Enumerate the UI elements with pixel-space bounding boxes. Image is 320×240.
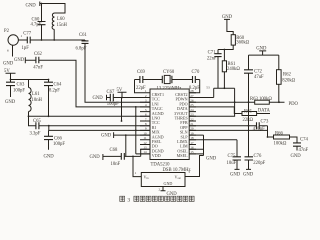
crystal CY60 xyxy=(157,70,182,91)
wire C68 to DGND pin 13 xyxy=(125,149,150,156)
connector P2 xyxy=(4,29,27,57)
svg-text:8.2pF: 8.2pF xyxy=(49,89,60,94)
wire 5V drop to TCC row xyxy=(121,98,123,122)
svg-text:9: 9 xyxy=(145,127,147,131)
svg-text:11: 11 xyxy=(143,136,147,140)
svg-text:5: 5 xyxy=(145,108,147,112)
resistor R61 xyxy=(222,61,240,72)
wire R61 bottom to THRES pin 23 xyxy=(189,72,235,117)
svg-text:820kΩ: 820kΩ xyxy=(282,79,295,84)
resistor R62 xyxy=(277,55,296,102)
capacitor C75 xyxy=(189,140,241,170)
svg-text:VDD: VDD xyxy=(152,153,161,158)
svg-text:C68: C68 xyxy=(110,148,118,153)
svg-text:10uF: 10uF xyxy=(227,161,237,166)
wire crystal left leg to CRST1 xyxy=(135,80,141,93)
svg-text:GND: GND xyxy=(243,173,254,178)
svg-text:GND: GND xyxy=(291,154,302,159)
svg-text:L60: L60 xyxy=(57,17,65,22)
svg-text:15nH: 15nH xyxy=(57,23,68,28)
power 5V at pin2 xyxy=(117,88,127,98)
transistor U2 voltage regulator box xyxy=(141,173,185,187)
resistor R60 xyxy=(231,35,249,46)
svg-text:8.2pF: 8.2pF xyxy=(189,86,200,91)
svg-text:14: 14 xyxy=(143,150,147,154)
capacitor C68 xyxy=(110,148,125,167)
svg-text:100pF: 100pF xyxy=(107,102,119,107)
node C64 bottom xyxy=(48,115,50,117)
power 5V rail left xyxy=(4,69,16,80)
svg-text:C69: C69 xyxy=(137,70,145,75)
op-amp U1 TDA5210 IC body xyxy=(150,89,189,160)
svg-text:22nF: 22nF xyxy=(207,57,217,62)
ground label for C62 xyxy=(14,57,36,63)
svg-text:GND: GND xyxy=(164,181,173,186)
wire drop to C65 xyxy=(29,116,36,125)
wire R60 to divider node xyxy=(218,45,233,61)
wire crystal right leg to CRST2 xyxy=(189,80,200,93)
svg-text:R66: R66 xyxy=(275,132,283,137)
svg-text:3: 3 xyxy=(188,170,190,174)
svg-text:100pF: 100pF xyxy=(53,142,65,147)
node 5V C63 xyxy=(10,79,12,81)
capacitor C71 xyxy=(207,50,222,89)
svg-text:TDA5210: TDA5210 xyxy=(151,163,171,168)
svg-text:240kΩ: 240kΩ xyxy=(227,67,240,72)
svg-text:GND: GND xyxy=(5,100,16,105)
ground label for C67 xyxy=(93,95,111,102)
svg-text:P2: P2 xyxy=(4,29,10,34)
capacitor C60 xyxy=(31,4,46,41)
ground GND top-left label xyxy=(26,2,40,9)
wire C to MIX pin 9 xyxy=(49,129,150,131)
svg-text:47nF: 47nF xyxy=(33,66,43,71)
svg-text:24: 24 xyxy=(190,108,194,112)
svg-text:47nF: 47nF xyxy=(299,148,309,153)
svg-text:DATA: DATA xyxy=(258,108,271,113)
capacitor C76 xyxy=(245,154,266,169)
svg-text:C61: C61 xyxy=(79,33,87,38)
svg-text:L61: L61 xyxy=(32,92,40,97)
capacitor C77 xyxy=(22,32,32,52)
wire C65 to RI pin 8 xyxy=(39,125,150,127)
node L61 bottom xyxy=(28,115,30,117)
svg-text:C74: C74 xyxy=(300,138,308,143)
svg-text:CY60: CY60 xyxy=(163,70,175,75)
svg-text:4.7pF: 4.7pF xyxy=(31,23,42,28)
wire OSEL MSEL to ground xyxy=(189,135,203,155)
pin names left column xyxy=(152,92,164,158)
svg-text:C70: C70 xyxy=(192,70,200,75)
svg-text:5V: 5V xyxy=(117,88,123,93)
svg-text:8: 8 xyxy=(145,122,147,126)
svg-text:C73: C73 xyxy=(261,119,269,124)
wire left pin stubs xyxy=(140,93,150,154)
wire LIM row to R66 xyxy=(189,126,267,137)
inductor L60 xyxy=(52,13,67,40)
svg-text:4: 4 xyxy=(145,103,147,107)
svg-text:C62: C62 xyxy=(34,52,42,57)
node at L60 bottom xyxy=(53,39,55,41)
capacitor C72 xyxy=(244,55,264,102)
svg-text:C75: C75 xyxy=(228,154,236,159)
svg-text:10nH: 10nH xyxy=(32,98,43,103)
svg-text:GND: GND xyxy=(93,96,104,101)
resistor R66 xyxy=(267,132,297,147)
svg-text:22: 22 xyxy=(190,117,194,121)
svg-text:C71: C71 xyxy=(208,50,216,55)
svg-text:C64: C64 xyxy=(54,83,62,88)
capacitor C66 xyxy=(44,130,65,149)
capacitor C73 on OPP row xyxy=(189,119,269,132)
ground label AGND pin 10 xyxy=(101,132,150,156)
ground above R60 xyxy=(222,15,233,35)
svg-text:C72: C72 xyxy=(254,70,262,75)
wire right pin stubs xyxy=(189,93,196,154)
svg-text:12: 12 xyxy=(143,141,147,145)
svg-text:R63 100kΩ: R63 100kΩ xyxy=(250,97,272,102)
ground GND1 above C72 R62 xyxy=(256,47,267,56)
svg-text:C63: C63 xyxy=(17,83,25,88)
svg-text:GND: GND xyxy=(26,4,37,9)
svg-text:100kΩ: 100kΩ xyxy=(274,142,287,147)
svg-text:7: 7 xyxy=(145,117,147,121)
svg-text:3: 3 xyxy=(145,99,147,103)
capacitor C64 xyxy=(44,79,62,117)
svg-text:2: 2 xyxy=(145,94,147,98)
svg-text:360kΩ: 360kΩ xyxy=(236,41,249,46)
svg-text:3.3pF: 3.3pF xyxy=(30,132,41,137)
svg-text:R62: R62 xyxy=(283,73,291,78)
node wire B xyxy=(48,125,50,127)
wire regulator pin 2 to ground xyxy=(159,187,178,197)
pin numbers left 1-14 xyxy=(143,89,147,154)
svg-text:3: 3 xyxy=(127,198,130,204)
svg-text:13: 13 xyxy=(143,146,147,150)
svg-text:17: 17 xyxy=(190,141,194,145)
svg-text:GND: GND xyxy=(3,61,14,66)
svg-text:1pF: 1pF xyxy=(22,46,30,51)
svg-text:PDO: PDO xyxy=(289,102,299,107)
capacitor C69 xyxy=(135,70,163,91)
svg-text:53: 53 xyxy=(206,85,210,89)
svg-text:GND: GND xyxy=(90,155,101,160)
wire regulator pin 3 Vout xyxy=(185,156,204,177)
inductor L61 xyxy=(29,80,43,117)
svg-text:C77: C77 xyxy=(23,32,31,37)
capacitor C65 xyxy=(30,119,42,137)
svg-text:GND: GND xyxy=(14,58,25,63)
svg-text:13.2256MHz: 13.2256MHz xyxy=(157,86,182,91)
wire C71 to PDWN pin 27 xyxy=(189,88,218,97)
wire drop B to C xyxy=(48,126,50,131)
wire A tank to LNO pin 6 xyxy=(29,115,151,117)
wire regulator feed xyxy=(132,156,141,177)
node at C60 bottom xyxy=(41,39,43,41)
capacitor C70 xyxy=(172,70,200,91)
ground label for C68 xyxy=(90,154,122,160)
svg-text:220pF: 220pF xyxy=(253,161,265,166)
capacitor C74 xyxy=(293,138,309,153)
svg-text:10: 10 xyxy=(143,131,147,135)
capacitor C67 xyxy=(107,90,120,107)
svg-text:GND: GND xyxy=(101,133,112,138)
svg-text:GND: GND xyxy=(230,173,241,178)
node divider top xyxy=(224,49,226,51)
capacitor C63 xyxy=(6,80,25,98)
svg-text:6: 6 xyxy=(145,113,147,117)
pin names right column xyxy=(174,92,188,158)
svg-text:100pF: 100pF xyxy=(13,89,25,94)
wire C62 to TAGC pin 4 xyxy=(39,60,150,107)
wire GND to tank top xyxy=(40,4,65,14)
svg-text:1: 1 xyxy=(21,34,23,38)
svg-text:10nF: 10nF xyxy=(111,162,121,167)
pin numbers right 28-15 xyxy=(190,89,194,154)
svg-text:C60: C60 xyxy=(32,17,40,22)
svg-text:1: 1 xyxy=(135,171,137,175)
svg-text:C67: C67 xyxy=(107,90,115,95)
svg-text:22pF: 22pF xyxy=(136,86,146,91)
wire C61 to LNI pin 3 xyxy=(30,40,150,102)
svg-text:2: 2 xyxy=(159,188,161,192)
svg-text:470pF: 470pF xyxy=(253,127,265,132)
capacitor C61 xyxy=(76,33,89,52)
wire long vertical from C72 to C76 xyxy=(248,102,250,157)
svg-text:47uF: 47uF xyxy=(254,75,264,80)
capacitor C62 xyxy=(33,52,43,71)
resistor R65 and DATA output xyxy=(189,107,270,123)
resistor R63 and PDO output xyxy=(189,97,298,107)
svg-text:C66: C66 xyxy=(54,137,62,142)
svg-text:MSEL: MSEL xyxy=(177,153,188,158)
svg-text:C76: C76 xyxy=(254,154,262,159)
svg-text:GND: GND xyxy=(206,156,217,161)
wire vertical bus TAGC to VDD xyxy=(135,106,150,154)
svg-text:GND: GND xyxy=(44,155,55,160)
wire 5V node to tank xyxy=(11,79,49,81)
caption figure 3 xyxy=(120,196,125,201)
wire C67 to TCC pin 2 xyxy=(114,97,150,99)
wire loop top C72 R62 xyxy=(249,54,279,56)
svg-text:6: 6 xyxy=(7,49,9,53)
svg-text:C65: C65 xyxy=(33,119,41,124)
